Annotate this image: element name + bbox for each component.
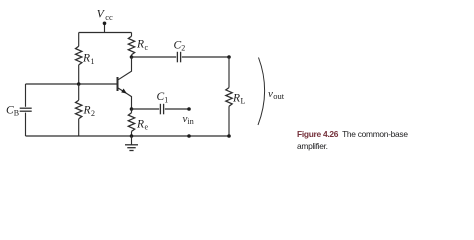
ground — [125, 136, 138, 151]
svg-text:B: B — [14, 109, 19, 118]
wire base rail (CB to transistor base) — [26, 83, 118, 85]
svg-text:2: 2 — [91, 109, 95, 118]
capacitor C1 — [160, 104, 163, 115]
wire collector node to C2 — [132, 56, 177, 58]
label Re — [136, 118, 149, 131]
wire Rc bottom lead — [131, 55, 133, 57]
label vin — [183, 113, 194, 126]
node RL top terminal — [227, 55, 231, 59]
capacitor CB — [20, 108, 32, 111]
resistor R2 — [76, 100, 82, 119]
svg-text:cc: cc — [105, 12, 113, 22]
transistor Q1 base bar — [117, 77, 119, 91]
transistor Q1 collector — [118, 57, 132, 80]
node vin upper terminal — [187, 107, 191, 111]
svg-text:R: R — [232, 92, 240, 104]
wire R1 bottom lead — [78, 65, 80, 84]
svg-text:in: in — [188, 117, 194, 126]
node emitter junction — [130, 107, 134, 111]
resistor Re — [128, 113, 134, 132]
svg-text:C: C — [174, 39, 182, 51]
svg-text:R: R — [136, 39, 144, 51]
wire C2 to RL top — [182, 56, 229, 58]
label Rc — [136, 39, 149, 52]
transistor Q1 emitter — [118, 88, 132, 109]
label CB — [6, 104, 19, 117]
svg-text:1: 1 — [91, 57, 95, 66]
wire CB top lead — [25, 84, 27, 107]
svg-text:L: L — [241, 97, 246, 106]
node vin lower terminal — [187, 134, 191, 138]
wire R1 top lead — [78, 33, 80, 47]
wire C1 to vin terminal — [165, 108, 189, 110]
label R2 — [83, 105, 96, 119]
node collector junction — [130, 55, 134, 59]
svg-text:c: c — [145, 43, 149, 52]
resistor RL — [226, 88, 232, 107]
wire Rc top lead — [131, 33, 133, 37]
svg-text:C: C — [6, 104, 14, 116]
label vout — [268, 88, 285, 101]
svg-text:1: 1 — [164, 95, 168, 104]
wire CB bottom lead — [25, 113, 27, 136]
svg-text:out: out — [273, 91, 285, 101]
vout bracket curve — [258, 58, 265, 126]
wire top rail — [79, 32, 132, 34]
label C1 — [157, 91, 169, 104]
wire bottom rail — [26, 135, 230, 137]
node ground junction — [130, 134, 134, 138]
svg-text:R: R — [136, 118, 144, 130]
figure caption — [297, 129, 427, 152]
label C2 — [174, 39, 186, 52]
resistor Rc — [128, 36, 134, 55]
capacitor C2 — [177, 52, 180, 63]
svg-text:C: C — [157, 91, 165, 103]
label R1 — [82, 53, 95, 67]
svg-text:R: R — [82, 53, 90, 65]
transistor Q1 emitter arrow — [121, 89, 127, 94]
svg-text:e: e — [145, 123, 149, 132]
label RL — [232, 92, 246, 105]
wire RL bottom lead — [228, 106, 230, 136]
wire emitter node to C1 — [132, 108, 160, 110]
wire RL top lead — [228, 57, 230, 88]
node RL bottom terminal — [227, 134, 231, 138]
svg-text:2: 2 — [181, 44, 185, 53]
wire Re bottom lead — [131, 131, 133, 136]
resistor R1 — [76, 46, 82, 65]
node Vcc terminal dot — [103, 22, 107, 26]
svg-text:R: R — [83, 105, 91, 117]
wire R2 bottom lead — [78, 119, 80, 136]
wire R2 top lead — [78, 84, 80, 100]
wire Vcc stub — [104, 24, 106, 33]
label Vcc — [97, 9, 113, 22]
wire Re top lead — [131, 109, 133, 113]
node junction base/R1/R2 — [77, 82, 81, 86]
